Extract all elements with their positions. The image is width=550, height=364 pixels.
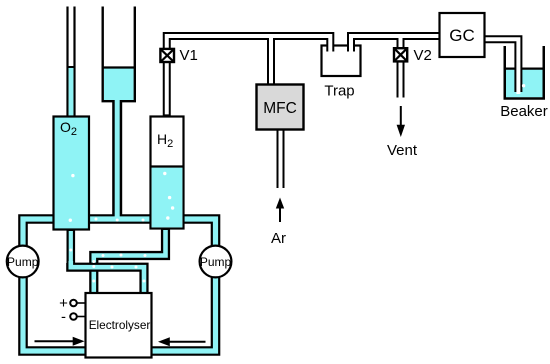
MFC (mass flow controller) box [257,85,304,130]
trap vessel (open-top container) [322,46,361,77]
svg-text:Pump: Pump [200,255,232,269]
pipe: left pump bottom down and along bottom loop to electrolyser left side [23,272,88,351]
H2 gas column (gas headspace over liquid) with label H2 [151,117,184,229]
flow direction arrow (left, pointing right into electrolyser) [35,337,85,346]
gas line: trap outlet stub up and right to GC inlet [351,36,441,54]
pump (left) [7,246,39,278]
svg-text:Electrolyser: Electrolyser [89,318,151,332]
svg-text:V2: V2 [414,47,432,64]
vent arrow (down) and label Vent [387,106,418,159]
thin tube into O2 column top (open top, meniscus line, liquid below) [67,7,76,117]
beaker (liquid with meniscus line) and label [500,46,548,120]
svg-text:V1: V1 [180,47,198,64]
pipe: right pump bottom down and along bottom loop to electrolyser right side [150,272,216,351]
valve V1 (crossed-square symbol) and label [160,47,197,64]
GC (gas chromatograph) box [440,13,485,57]
gas line: GC outlet right and down into beaker liquid [483,39,518,94]
gas line: tee branch down through valve V2 to vent outlet [397,37,405,100]
flow direction arrow (right, pointing left into electrolyser) [158,337,206,346]
svg-text:Vent: Vent [387,142,418,159]
valve V2 (crossed-square symbol) and label [394,47,432,64]
pipe: O2 column bottom stem (narrow) [67,230,76,265]
gas line: MFC bottom pipe (Ar inlet) [277,127,285,190]
svg-text:Ar: Ar [271,230,286,247]
Ar feed arrow (up) and label Ar [271,198,286,248]
svg-text:-: - [61,309,66,326]
pipe: H2 column bottom to electrolyser left port (passes under crossing) [94,228,166,294]
electrolyte manifold pipe: left pump top, across behind O2 and H2 columns, to right pump top [23,98,216,250]
pipe: O2 stem to electrolyser right port (crosses over H2 pipe) [71,261,144,294]
gas bubbles in liquid and pipes [69,84,526,283]
svg-text:MFC: MFC [263,100,297,117]
svg-text:Trap: Trap [324,83,354,100]
pump (right) [200,246,232,278]
positive terminal (+) of electrolyser [59,295,85,312]
svg-text:Beaker: Beaker [500,103,548,120]
negative terminal (-) of electrolyser [61,309,86,326]
burette stem pipe down to manifold tee [112,100,122,219]
gas burette tube (open top, liquid fill, meniscus line) [102,7,137,102]
gas line: riser from valve V1 up, top run right, down into trap inlet stub [167,36,331,54]
electrolyser cell box [86,293,152,358]
gas line: valve V1 down to H2 column top [163,60,171,116]
svg-text:Pump: Pump [7,255,39,269]
gas line: tee branch down to MFC inlet [267,37,275,86]
svg-text:GC: GC [449,26,475,45]
O2 gas column (liquid filled) with label O2 [54,117,90,230]
